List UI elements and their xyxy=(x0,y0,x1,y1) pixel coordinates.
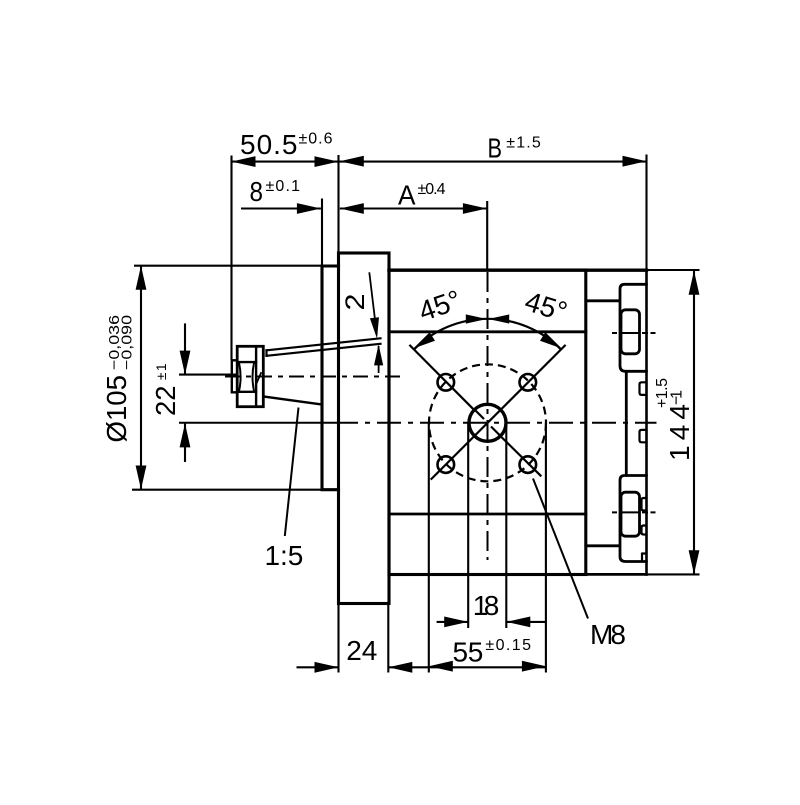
svg-text:18: 18 xyxy=(473,590,500,621)
svg-text:Ø105: Ø105 xyxy=(101,375,132,443)
svg-text:1:5: 1:5 xyxy=(265,540,304,571)
svg-text:22: 22 xyxy=(150,386,181,417)
svg-text:50.5: 50.5 xyxy=(240,129,298,160)
svg-text:2: 2 xyxy=(340,294,370,311)
svg-text:±0.15: ±0.15 xyxy=(485,637,531,654)
svg-text:±0.4: ±0.4 xyxy=(418,181,446,198)
svg-text:±1.5: ±1.5 xyxy=(506,135,541,152)
svg-text:B: B xyxy=(488,133,503,164)
svg-text:±0.6: ±0.6 xyxy=(299,131,333,148)
svg-text:55: 55 xyxy=(453,637,484,668)
svg-text:−0,090: −0,090 xyxy=(120,315,136,370)
svg-text:±0.1: ±0.1 xyxy=(266,178,301,195)
svg-text:M8: M8 xyxy=(590,619,626,650)
svg-text:24: 24 xyxy=(346,635,377,666)
svg-text:−1: −1 xyxy=(669,390,686,405)
svg-text:A: A xyxy=(398,180,416,211)
svg-text:144: 144 xyxy=(664,404,695,461)
svg-text:±1: ±1 xyxy=(154,364,169,381)
svg-text:8: 8 xyxy=(250,176,264,207)
